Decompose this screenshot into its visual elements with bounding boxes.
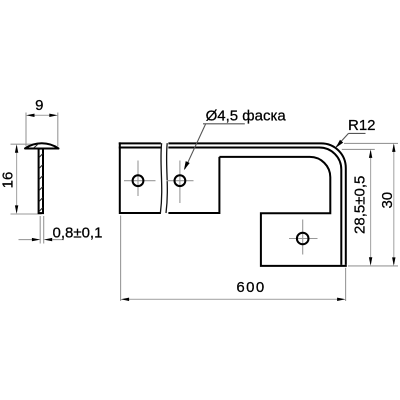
profile cap (mushroom head) [25,143,59,148]
svg-text:28,5±0,5: 28,5±0,5 [351,176,368,234]
dim 0,8 arrow pointing left [44,238,53,241]
dim 28,5 arrow bottom [369,257,372,266]
outer top edge with R corner and right edge [119,143,346,265]
svg-text:R12: R12 [348,117,376,134]
flange inner edge line [119,148,341,265]
hole 3 center marks [289,220,318,255]
dim 600 extension line right [345,268,347,301]
dim 9 extension line right [57,113,59,147]
dim 600 dimension line [127,298,339,300]
leader line for R12 [336,133,348,146]
leader arrow R12 [336,140,344,148]
dim 9 arrow right [49,114,58,117]
leader line for hole label [185,124,206,169]
svg-text:600: 600 [236,279,265,296]
dim 0,8 arrow pointing right [32,238,41,241]
svg-text:30: 30 [379,192,396,209]
dim 9 arrow left [26,114,35,117]
dim 28,5 dimension line [370,151,372,264]
dim 30 arrow top [392,143,395,152]
left part outline: left edge, bottom edge, notch vertical [120,142,220,213]
dim 9 dimension line [34,114,51,116]
hole 2 center marks [167,161,194,204]
break wavy line right [166,143,167,213]
dim 28,5 extension line top [342,148,375,150]
dim 600 arrow right [337,298,346,301]
dim 30 extension line top [344,142,398,144]
hole 2 [175,175,186,186]
hole 3 [297,233,309,245]
svg-text:16: 16 [0,172,17,189]
dim 600 arrow left [121,298,130,301]
svg-text:0,8±0,1: 0,8±0,1 [53,224,103,241]
profile web (stem), hatched section [39,149,43,214]
dim 0,8 leader line left [19,239,33,241]
dim 0,8 tail line [52,239,64,241]
dim 16 extension line top [11,143,42,145]
dim 16 arrow bottom [15,205,18,214]
dim 16 extension line bottom [11,213,42,215]
break wavy line left [160,143,161,213]
svg-text:9: 9 [35,97,43,114]
dim 16 dimension line [16,146,18,212]
dim 16 arrow top [15,144,18,153]
hatch lines in web [39,154,43,212]
leader arrow at hole 2 [184,161,190,170]
dim 30 dimension line [393,145,395,264]
svg-text:Ø4,5 фаска: Ø4,5 фаска [206,107,287,124]
leader shelf under R12 [349,132,366,134]
notch top edge, inner corner, step and lower-right outline [219,157,346,266]
dim 0,8 extension line right [43,216,45,244]
dim 30 arrow bottom [392,257,395,266]
dim 600 extension line left [120,216,122,302]
dim 9 extension line left [25,113,27,147]
leader shelf under hole label [203,123,245,125]
dim 0,8 extension line left [39,216,41,244]
hatch line in cap [34,144,39,148]
dim 28,5 arrow top [369,149,372,158]
hole 1 [133,175,144,186]
shared bottom extension line for right dims [348,265,398,267]
hole 1 center marks [124,161,156,197]
